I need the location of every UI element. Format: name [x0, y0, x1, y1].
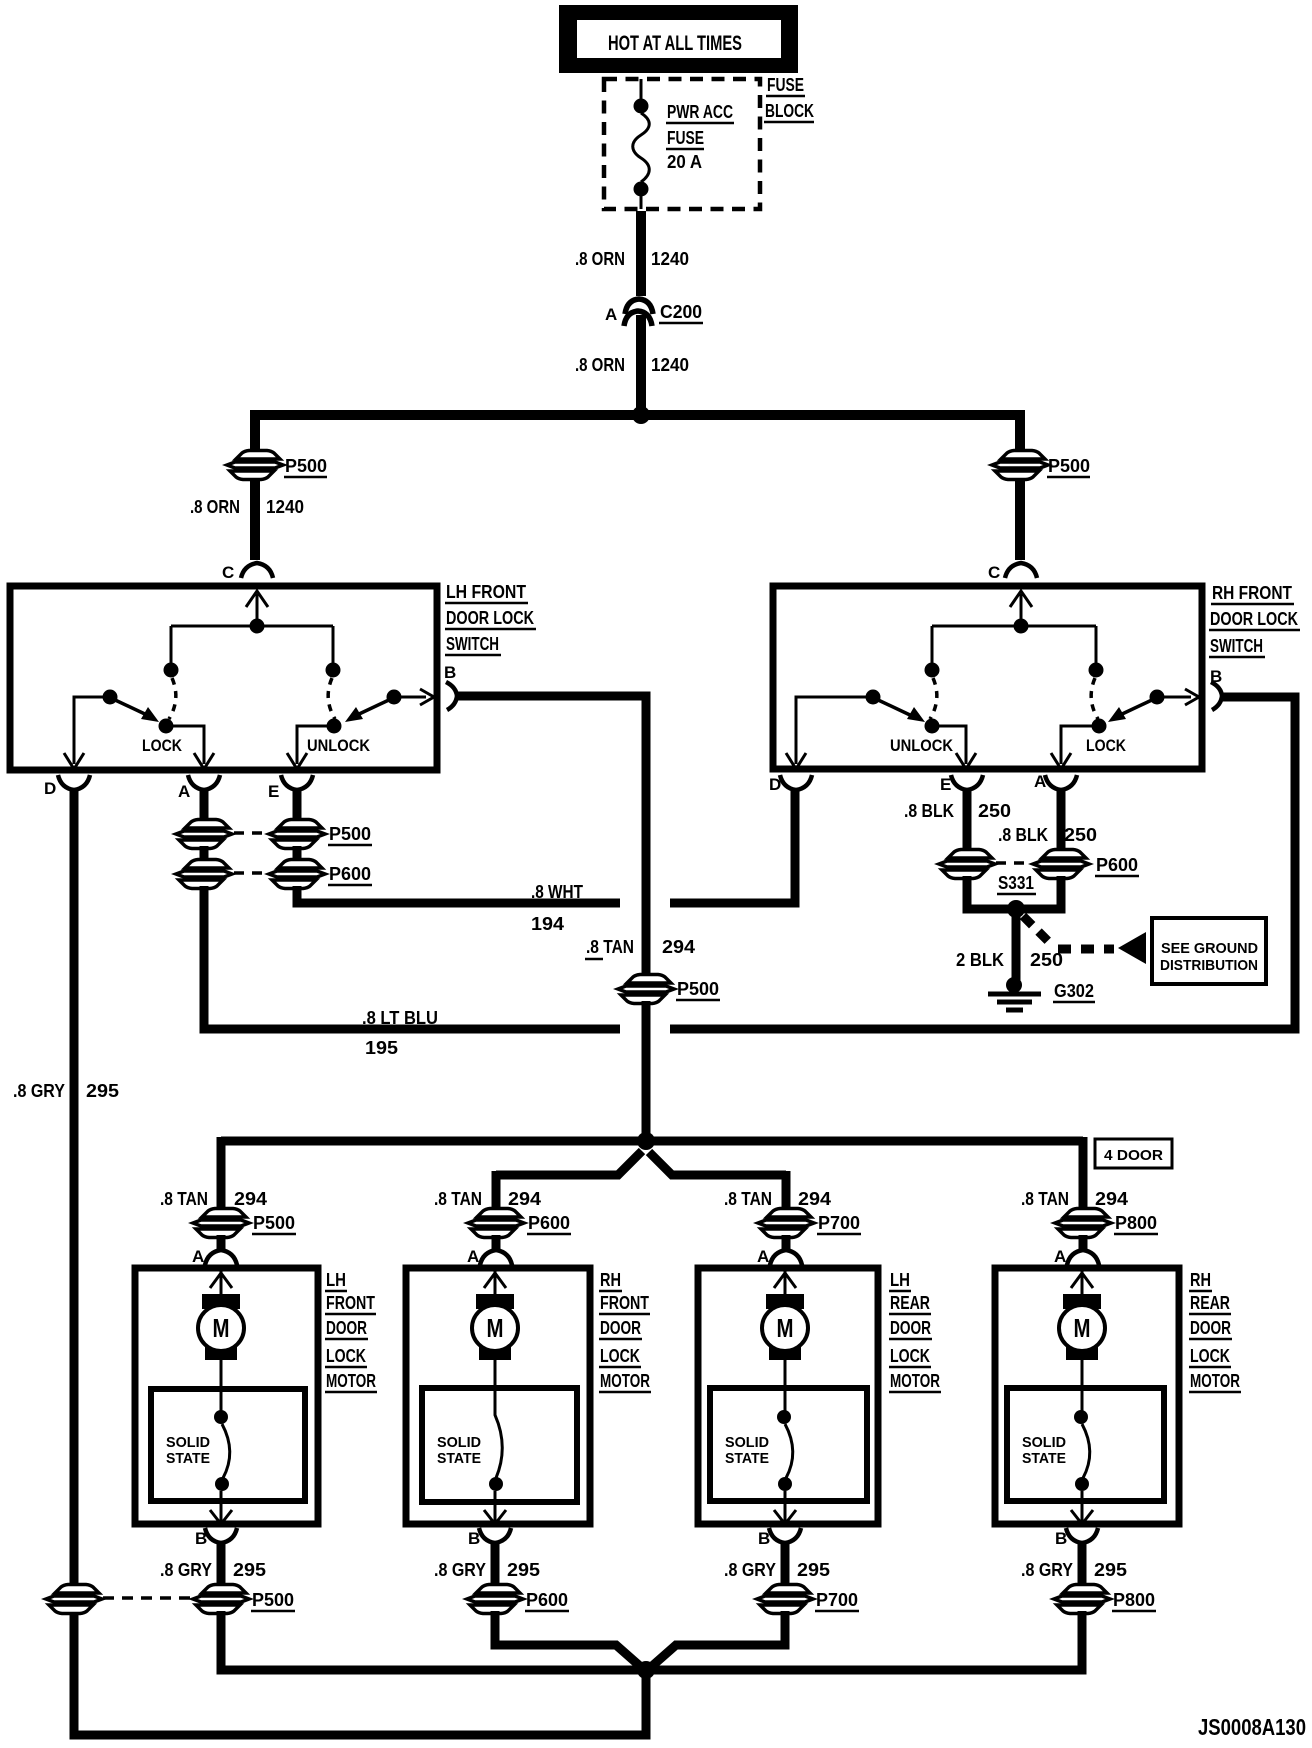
B terminal cup [1211, 682, 1222, 710]
solid state box [1007, 1388, 1164, 1501]
internal crossbar wire [171, 625, 333, 628]
solid state box [151, 1389, 305, 1501]
wire LH B to center vertical [457, 696, 646, 975]
wire LH D terminal down left side [70, 790, 79, 1584]
left fixed contact stub [931, 626, 934, 664]
svg-text:REAR: REAR [890, 1293, 930, 1313]
svg-text:LH FRONT: LH FRONT [446, 582, 526, 602]
motor M2 [472, 1294, 518, 1360]
svg-text:C200: C200 [660, 302, 702, 322]
svg-text:194: 194 [531, 914, 564, 934]
svg-text:P500: P500 [329, 824, 371, 844]
connector P500 on A [176, 820, 232, 849]
svg-text:.8 GRY: .8 GRY [724, 1560, 776, 1580]
D terminal cup [58, 775, 90, 790]
connector P700 bottom [757, 1585, 813, 1614]
connector P600 [1033, 850, 1089, 879]
switch contact top [220, 1389, 223, 1412]
wire motor to solid state [784, 1360, 787, 1389]
svg-text:.8 TAN: .8 TAN [586, 937, 634, 957]
svg-text:RH FRONT: RH FRONT [1212, 583, 1292, 603]
svg-text:294: 294 [662, 937, 695, 957]
svg-text:P600: P600 [329, 864, 371, 884]
svg-text:.8 WHT: .8 WHT [531, 882, 583, 902]
svg-text:SOLID: SOLID [166, 1434, 210, 1451]
4door lower bus right wire [649, 1152, 786, 1175]
fuse element F: PWR ACC FUSE 20A [633, 113, 650, 182]
svg-text:B: B [1210, 667, 1222, 686]
exit arrow [1071, 1491, 1093, 1524]
motor labels [889, 1270, 941, 1392]
wire into fuse [640, 79, 643, 101]
dashed actuator arc right [1091, 678, 1098, 719]
far left inline connector [46, 1585, 102, 1614]
wire UNLOCK contact to E terminal with arrow [287, 726, 334, 769]
entry arrow [1071, 1268, 1093, 1294]
svg-text:D: D [769, 775, 781, 794]
svg-text:DOOR: DOOR [600, 1318, 641, 1338]
svg-text:DOOR: DOOR [890, 1318, 931, 1338]
wire pole to B edge with arrow [1157, 689, 1199, 705]
wire RH E to S331 [963, 790, 972, 851]
switch contact bottom [489, 1477, 503, 1491]
svg-text:A: A [1054, 1247, 1066, 1266]
svg-text:MOTOR: MOTOR [1190, 1371, 1240, 1391]
svg-text:MOTOR: MOTOR [326, 1371, 376, 1391]
connector P500 [193, 1209, 249, 1238]
wire to bottom bus diag [651, 1611, 785, 1667]
svg-text:B: B [758, 1529, 770, 1548]
svg-text:B: B [444, 663, 456, 682]
bottom junction node [637, 1661, 655, 1679]
bus junction node [632, 406, 650, 424]
svg-text:.8 BLK: .8 BLK [904, 801, 954, 821]
svg-text:295: 295 [1094, 1560, 1127, 1580]
HOT AT ALL TIMES box [559, 5, 798, 73]
connector P800 bottom [1054, 1585, 1110, 1614]
SEE GROUND DISTRIBUTION box [1152, 918, 1266, 984]
wire to motor pin A [217, 1235, 226, 1251]
wire P500 to RH switch C [1015, 479, 1025, 560]
svg-text:LOCK: LOCK [142, 736, 183, 755]
node common [1014, 619, 1029, 634]
internal crossbar wire [932, 625, 1096, 628]
svg-text:DOOR: DOOR [326, 1318, 367, 1338]
right drop wire [1015, 410, 1025, 452]
connector P600 [468, 1209, 524, 1238]
svg-text:1240: 1240 [651, 249, 689, 269]
wire C200 to bus [636, 315, 646, 415]
A terminal cup [1045, 775, 1077, 790]
svg-text:LOCK: LOCK [326, 1346, 366, 1366]
svg-text:294: 294 [234, 1189, 267, 1209]
RH front door lock motor box [406, 1268, 590, 1524]
svg-text:G302: G302 [1054, 981, 1094, 1001]
svg-text:P500: P500 [677, 979, 719, 999]
wire pole to D terminal with arrow [64, 697, 110, 769]
wire to bottom bus [652, 1611, 1082, 1670]
wiper arm toward LOCK [113, 699, 147, 715]
wire drop col4 [1079, 1137, 1088, 1213]
svg-text:.8 BLK: .8 BLK [998, 825, 1048, 845]
connector P500 center [618, 975, 674, 1004]
svg-text:PWR ACC: PWR ACC [667, 102, 733, 122]
svg-text:C: C [988, 563, 1000, 582]
LH front door lock switch box [10, 586, 437, 770]
entry arrow from C [1010, 591, 1032, 626]
pin A cap [770, 1250, 802, 1265]
svg-text:1240: 1240 [651, 355, 689, 375]
ground G302 [988, 977, 1095, 1010]
wire center vertical to 4door junction [642, 1001, 651, 1141]
RH C terminal [1005, 563, 1037, 578]
svg-text:B: B [468, 1529, 480, 1548]
wire to fuse block bottom [640, 194, 643, 209]
motor labels [325, 1270, 377, 1392]
fuse block dashed box [604, 79, 760, 209]
wire pole to B edge with arrow [394, 689, 434, 705]
connector P600 bottom [467, 1585, 523, 1614]
svg-text:P600: P600 [526, 1590, 568, 1610]
svg-text:295: 295 [797, 1560, 830, 1580]
svg-text:FUSE: FUSE [767, 75, 804, 95]
svg-text:P700: P700 [816, 1590, 858, 1610]
wire to motor pin A [492, 1235, 501, 1251]
solid state box [422, 1388, 577, 1502]
svg-text:FUSE: FUSE [667, 128, 704, 148]
svg-text:20 A: 20 A [667, 152, 702, 172]
pin B cup [205, 1528, 237, 1543]
wire to bottom bus [221, 1611, 640, 1670]
svg-text:.8 TAN: .8 TAN [1021, 1189, 1069, 1209]
svg-text:.8 TAN: .8 TAN [724, 1189, 772, 1209]
motor M4 [1059, 1294, 1105, 1360]
switch curve [495, 1388, 502, 1478]
svg-text:.8 GRY: .8 GRY [160, 1560, 212, 1580]
connector P600 on E [269, 860, 325, 889]
wiper arm toward UNLOCK [876, 699, 910, 715]
svg-text:.8 TAN: .8 TAN [434, 1189, 482, 1209]
solid state box [710, 1388, 867, 1501]
wire 2 BLK 250 to ground [1012, 913, 1021, 980]
svg-text:SOLID: SOLID [1022, 1434, 1066, 1451]
svg-text:A: A [605, 305, 617, 324]
wire LH E terminal to P500 [293, 790, 302, 820]
wire between P500 and P600 on A [200, 846, 209, 861]
D terminal cup [780, 775, 812, 790]
svg-text:STATE: STATE [1022, 1450, 1066, 1467]
svg-text:MOTOR: MOTOR [890, 1371, 940, 1391]
svg-text:P800: P800 [1115, 1213, 1157, 1233]
wire between P500 and P600 on E [293, 846, 302, 861]
dashed tie S331-P600 [996, 861, 1032, 865]
svg-text:.8 TAN: .8 TAN [160, 1189, 208, 1209]
svg-text:P500: P500 [1048, 456, 1090, 476]
label PWR ACC FUSE 20 A [666, 102, 734, 172]
dashed actuator arc right [328, 678, 335, 719]
svg-text:LOCK: LOCK [890, 1346, 930, 1366]
RH switch labels [1209, 583, 1300, 657]
dashed tie P500 pair [234, 831, 266, 835]
svg-text:JS0008A130: JS0008A130 [1198, 1714, 1306, 1740]
LOCK contact node [1092, 719, 1107, 734]
svg-text:STATE: STATE [437, 1450, 481, 1467]
4door junction node [637, 1132, 655, 1150]
wire fuse block to C200 [636, 211, 646, 296]
bottom return wire [74, 1612, 646, 1735]
wire motor to solid state [494, 1360, 497, 1389]
switch contact bottom [215, 1477, 229, 1491]
svg-text:REAR: REAR [1190, 1293, 1230, 1313]
wire LOCK contact to A terminal with arrow [1051, 726, 1099, 769]
svg-text:SEE GROUND: SEE GROUND [1161, 940, 1258, 957]
splice node S331 [1007, 900, 1025, 918]
svg-text:.8 LT BLU: .8 LT BLU [362, 1008, 438, 1028]
E terminal cup [951, 775, 983, 790]
entry arrow [484, 1268, 506, 1294]
svg-text:294: 294 [508, 1189, 541, 1209]
LH C terminal [241, 563, 273, 578]
svg-text:P600: P600 [528, 1213, 570, 1233]
svg-text:LH: LH [890, 1270, 910, 1290]
4 DOOR tag box [1095, 1139, 1172, 1168]
dashed tie P600 pair [234, 871, 266, 875]
connector C200 pin A [605, 299, 703, 326]
svg-text:195: 195 [365, 1038, 398, 1058]
svg-text:STATE: STATE [166, 1450, 210, 1467]
svg-text:E: E [268, 782, 279, 801]
svg-text:250: 250 [978, 801, 1011, 821]
svg-text:LOCK: LOCK [600, 1346, 640, 1366]
node common [250, 619, 265, 634]
pin B cup [1066, 1528, 1098, 1543]
wires joining to ground splice [967, 876, 1061, 909]
entry arrow [774, 1268, 796, 1294]
terminal D pole node [103, 690, 118, 705]
svg-text:STATE: STATE [725, 1450, 769, 1467]
svg-text:SWITCH: SWITCH [446, 634, 499, 654]
svg-text:.8 ORN: .8 ORN [575, 249, 625, 269]
A terminal cup [188, 775, 220, 790]
LH front door lock motor box [135, 1268, 318, 1524]
svg-text:RH: RH [1190, 1270, 1211, 1290]
E terminal cup [281, 775, 313, 790]
wire RH A to P600 [1057, 790, 1066, 851]
svg-text:DOOR: DOOR [1190, 1318, 1231, 1338]
svg-text:P700: P700 [818, 1213, 860, 1233]
motor labels [1189, 1270, 1241, 1392]
wire motor to solid state [220, 1360, 223, 1389]
connector P600 on A [176, 860, 232, 889]
svg-text:.8 GRY: .8 GRY [434, 1560, 486, 1580]
svg-text:SOLID: SOLID [725, 1434, 769, 1451]
svg-text:295: 295 [507, 1560, 540, 1580]
connector P700 [758, 1209, 814, 1238]
connector P500 right [992, 451, 1048, 480]
top bus wire [255, 410, 1020, 420]
svg-text:SWITCH: SWITCH [1210, 636, 1263, 656]
wire pin B down [781, 1541, 790, 1585]
svg-text:P800: P800 [1113, 1590, 1155, 1610]
label FUSE BLOCK [764, 75, 814, 122]
switch curve [222, 1424, 230, 1478]
svg-text:294: 294 [798, 1189, 831, 1209]
svg-text:UNLOCK: UNLOCK [307, 736, 371, 755]
svg-text:D: D [44, 779, 56, 798]
wire .8 WHT 194 E to RH D [297, 790, 795, 903]
svg-text:295: 295 [233, 1560, 266, 1580]
svg-text:A: A [467, 1247, 479, 1266]
motor M3 [762, 1294, 808, 1360]
svg-text:S331: S331 [998, 873, 1034, 893]
svg-text:LOCK: LOCK [1086, 736, 1127, 755]
exit arrow [210, 1491, 232, 1524]
fuse top dot [634, 99, 649, 114]
svg-text:.8 ORN: .8 ORN [190, 497, 240, 517]
svg-text:RH: RH [600, 1270, 621, 1290]
terminal B pole node [1150, 690, 1165, 705]
wire drop col1 [217, 1137, 226, 1213]
LH rear door lock motor box [698, 1268, 878, 1524]
exit arrow [484, 1491, 506, 1524]
RH front door lock switch box [773, 586, 1202, 769]
wire to motor pin A [782, 1235, 791, 1251]
left fixed contact stub [170, 626, 173, 664]
wire pin B down [491, 1541, 500, 1585]
svg-text:.8 ORN: .8 ORN [575, 355, 625, 375]
svg-text:250: 250 [1064, 825, 1097, 845]
wire drop col3 [782, 1171, 791, 1213]
wire pin B down [1078, 1541, 1087, 1585]
svg-text:.8 GRY: .8 GRY [1021, 1560, 1073, 1580]
svg-text:M: M [487, 1313, 504, 1343]
terminal B pole node [387, 690, 402, 705]
svg-text:M: M [213, 1313, 230, 1343]
wire drop col2 [492, 1171, 501, 1213]
svg-text:4 DOOR: 4 DOOR [1104, 1147, 1163, 1164]
switch contact bottom [778, 1477, 792, 1491]
switch curve [1082, 1424, 1090, 1478]
svg-text:P500: P500 [253, 1213, 295, 1233]
UNLOCK contact node [327, 719, 342, 734]
svg-text:M: M [777, 1313, 794, 1343]
pin A cap [480, 1250, 512, 1265]
wire pole to D terminal with arrow [786, 697, 873, 769]
wire to motor pin A [1079, 1235, 1088, 1251]
switch contact top [1081, 1388, 1084, 1412]
RH rear door lock motor box [995, 1268, 1179, 1524]
motor M1 [198, 1294, 244, 1360]
right fixed contact stub [332, 626, 335, 664]
wiper arm toward UNLOCK [357, 699, 391, 715]
pin A cap [1067, 1250, 1099, 1265]
terminal D pole node [866, 690, 881, 705]
svg-text:MOTOR: MOTOR [600, 1371, 650, 1391]
switch contact bottom [1075, 1477, 1089, 1491]
svg-text:B: B [1055, 1529, 1067, 1548]
svg-text:295: 295 [86, 1081, 119, 1101]
pin A cap [205, 1250, 237, 1265]
svg-text:DISTRIBUTION: DISTRIBUTION [1160, 957, 1258, 974]
wire to bottom bus diag [495, 1611, 641, 1667]
connector P500 on E [269, 820, 325, 849]
svg-text:SOLID: SOLID [437, 1434, 481, 1451]
pin B cup [479, 1528, 511, 1543]
svg-text:1240: 1240 [266, 497, 304, 517]
motor labels [599, 1270, 651, 1392]
svg-text:FRONT: FRONT [600, 1293, 649, 1313]
wire UNLOCK contact to E terminal with arrow [932, 726, 976, 769]
wiper arm toward LOCK [1120, 699, 1154, 715]
fuse bottom dot [634, 182, 649, 197]
svg-text:P500: P500 [285, 456, 327, 476]
4door lower bus left wire [496, 1151, 642, 1175]
switch contact top [784, 1388, 787, 1412]
svg-text:2 BLK: 2 BLK [956, 950, 1004, 970]
connector S331 [939, 850, 995, 879]
left drop wire [250, 410, 260, 452]
svg-text:B: B [195, 1529, 207, 1548]
connector P500 left [227, 451, 283, 480]
wire pin B down [217, 1541, 226, 1585]
dashed tie to P500 [103, 1596, 193, 1600]
svg-text:BLOCK: BLOCK [765, 101, 814, 121]
entry arrow [210, 1268, 232, 1294]
pin B cup [769, 1528, 801, 1543]
svg-text:C: C [222, 563, 234, 582]
switch curve [785, 1424, 793, 1478]
svg-text:P500: P500 [252, 1590, 294, 1610]
entry arrow from C [246, 591, 268, 626]
UNLOCK contact node [925, 719, 940, 734]
connector P800 [1055, 1209, 1111, 1238]
wire motor to solid state [1081, 1360, 1084, 1389]
exit arrow [774, 1491, 796, 1524]
svg-text:HOT AT ALL TIMES: HOT AT ALL TIMES [608, 32, 742, 55]
right fixed contact stub [1095, 626, 1098, 664]
LH switch labels [445, 582, 536, 655]
svg-text:294: 294 [1095, 1189, 1128, 1209]
dashed actuator arc left [169, 678, 176, 719]
svg-text:DOOR LOCK: DOOR LOCK [446, 608, 534, 628]
svg-text:LH: LH [326, 1270, 346, 1290]
dashed actuator arc left [930, 678, 937, 719]
4door upper bus wire [221, 1137, 1083, 1146]
svg-text:FRONT: FRONT [326, 1293, 375, 1313]
wire LH A terminal to P500 [200, 790, 209, 820]
svg-text:P600: P600 [1096, 855, 1138, 875]
svg-text:UNLOCK: UNLOCK [890, 736, 954, 755]
svg-text:.8 GRY: .8 GRY [13, 1081, 65, 1101]
svg-text:M: M [1074, 1313, 1091, 1343]
wire .8 LT BLU 195 A to RH B [204, 697, 1295, 1029]
dashed pointer to ground distribution [1023, 916, 1053, 946]
connector P500 bottom [193, 1585, 249, 1614]
svg-text:A: A [1034, 772, 1046, 791]
wire LOCK contact to A terminal with arrow [166, 726, 214, 769]
svg-text:A: A [192, 1247, 204, 1266]
B terminal cup [446, 682, 457, 710]
svg-text:A: A [178, 782, 190, 801]
wire P500 to LH switch C [250, 479, 260, 560]
svg-text:DOOR LOCK: DOOR LOCK [1210, 609, 1298, 629]
LOCK contact node [159, 719, 174, 734]
svg-text:LOCK: LOCK [1190, 1346, 1230, 1366]
svg-text:A: A [757, 1247, 769, 1266]
svg-text:E: E [940, 775, 951, 794]
